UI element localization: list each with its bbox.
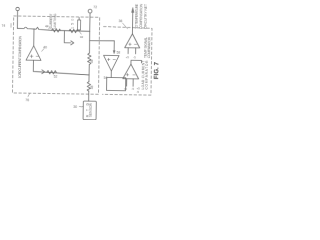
wire: U4 output up and right <box>131 60 142 64</box>
wire C: from U1 base down and right <box>33 60 89 75</box>
label 50 <box>70 19 74 29</box>
label 54 <box>104 76 108 80</box>
svg-text:COMPARATOR: COMPARATOR <box>147 36 151 58</box>
label 40 with leader <box>42 48 45 51</box>
label 36 with leader <box>122 23 127 29</box>
resistor R3 (vertical, from top edge) <box>78 17 80 19</box>
label 76 below left box <box>28 94 30 97</box>
wire: from terminal down across wire A to wire B <box>88 13 91 53</box>
branch arrow (signal tap) <box>64 31 71 43</box>
label 58 <box>117 51 121 55</box>
resistor R1 on wire A <box>51 29 60 33</box>
RTD sensor box <box>83 101 96 120</box>
label 52 <box>54 75 58 79</box>
resistor R6 (vertical divider lower) <box>87 82 91 92</box>
svg-text:+5: +5 <box>124 87 128 91</box>
label: load current compensation (vertical, left box) <box>18 35 23 78</box>
svg-text:CIRCUITRY NET: CIRCUITRY NET <box>143 4 147 29</box>
svg-text:46: 46 <box>90 59 94 63</box>
label 48 <box>90 85 94 89</box>
wire: U2 output into latch box <box>110 71 112 77</box>
svg-text:76: 76 <box>25 98 29 102</box>
svg-text:150: 150 <box>70 19 74 29</box>
latch box <box>107 77 126 90</box>
U3 supply leads <box>128 48 136 54</box>
U4 supply leads <box>127 79 134 87</box>
wire: down with arrowhead into comparator U2 <box>113 41 115 52</box>
resistor R2 on wire A <box>69 29 78 33</box>
terminal circle 72 <box>88 9 92 13</box>
label: load current sign comparator (vertical) <box>141 60 149 90</box>
svg-text:44: 44 <box>45 24 49 28</box>
label 46 <box>90 59 94 63</box>
label text: current limiting (vertical two lines) <box>49 13 57 29</box>
label 44 with leader <box>48 27 50 29</box>
svg-text:72: 72 <box>93 5 97 9</box>
dashed box: load current compensation circuit (left) <box>12 16 99 94</box>
svg-text:36: 36 <box>119 19 123 23</box>
op-amp U4 (points up) <box>123 64 139 79</box>
svg-text:48: 48 <box>90 85 94 89</box>
svg-text:SENSOR: SENSOR <box>89 103 93 118</box>
op-amp U3 (points up, output to temperature compensation) <box>125 34 140 48</box>
svg-text:COMPARATOR: COMPARATOR <box>145 60 149 90</box>
label 30 with leader <box>79 105 83 108</box>
label: to temperature compensation circuitry <box>134 3 147 29</box>
svg-text:LIMITING: LIMITING <box>53 13 57 28</box>
wire A: upper horizontal rail with hop <box>17 27 90 31</box>
label: temperature signal comparator (vertical) <box>143 36 151 58</box>
svg-text:30: 30 <box>73 105 77 109</box>
terminal circle 70 (top-left) <box>16 7 19 10</box>
op-amp U2 (points down) <box>103 55 119 71</box>
wire: U3 output arrow up to temperature compensation circuitry <box>131 12 133 34</box>
svg-text:LOAD CURRENT COMPENSATION: LOAD CURRENT COMPENSATION <box>18 35 23 78</box>
wire: junction to R6 <box>88 75 90 82</box>
wire B: main horizontal into right box <box>90 39 115 42</box>
FIG. 7 caption <box>153 61 160 79</box>
svg-text:+5: +5 <box>126 55 130 59</box>
svg-text:74: 74 <box>1 24 5 28</box>
svg-text:52: 52 <box>54 75 58 79</box>
wire: lead from terminal down to wire A <box>16 11 18 29</box>
resistor R5 (vertical divider upper) <box>88 53 92 64</box>
label 32 with leader <box>79 32 81 34</box>
svg-text:FIG. 7: FIG. 7 <box>153 61 160 79</box>
dashed box: comparator circuitry (right) <box>102 27 152 96</box>
resistor R4 on wire C <box>47 70 57 74</box>
arrow on wire C <box>42 70 45 74</box>
svg-text:40: 40 <box>43 45 47 49</box>
reference numeral 74 <box>1 24 5 28</box>
svg-text:58: 58 <box>117 51 121 55</box>
svg-text:32: 32 <box>80 35 84 39</box>
op-amp U1 (points up, output to wire A) <box>33 29 35 46</box>
